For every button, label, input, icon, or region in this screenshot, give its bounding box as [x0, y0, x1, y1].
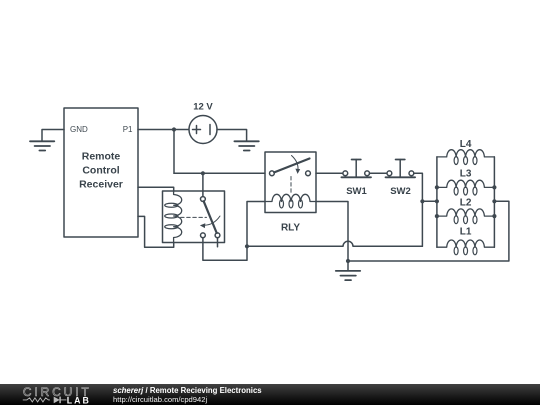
- svg-text:LAB: LAB: [67, 395, 91, 405]
- node left rail junction feed: [435, 199, 439, 203]
- relay RLY (switch + coil): [265, 152, 316, 234]
- wire switch row to relay K1: [174, 172, 265, 174]
- wire crossing with hop to SW2 drop: [247, 241, 422, 246]
- wire RLY to SW1: [316, 172, 343, 174]
- ground (right of V1): [234, 141, 258, 150]
- switch SW1 (pushbutton): [341, 160, 371, 198]
- svg-text:SW1: SW1: [346, 186, 367, 197]
- svg-text:Control: Control: [82, 165, 119, 177]
- node right rail junction L2: [492, 214, 496, 218]
- wire RLY coil right to ground: [316, 202, 348, 262]
- node junction P1/relay feed: [172, 127, 176, 131]
- svg-text:Remote: Remote: [82, 151, 121, 163]
- svg-text:SW2: SW2: [390, 186, 411, 197]
- CircuitLab logo: [0, 384, 110, 405]
- inductor L2: [437, 198, 495, 224]
- wire ground stem: [347, 261, 349, 271]
- wire SW1 to SW2: [370, 172, 388, 174]
- voltage source V1 12 V: [189, 102, 217, 144]
- svg-text:Receiver: Receiver: [79, 179, 123, 191]
- wire P1 to V1: [138, 129, 189, 131]
- svg-text:L4: L4: [460, 139, 472, 150]
- node left rail junction L2: [435, 214, 439, 218]
- node junction to relay K1 common: [201, 171, 205, 175]
- svg-text:L3: L3: [460, 168, 472, 179]
- inductor L1: [437, 227, 495, 255]
- node junction SW2 feed: [420, 199, 424, 203]
- svg-text:12 V: 12 V: [193, 102, 213, 113]
- wire right rail out to bottom return: [348, 201, 509, 261]
- wire RLY coil left to node: [247, 202, 265, 247]
- svg-text:P1: P1: [123, 125, 133, 134]
- node right rail junction L3: [492, 185, 496, 189]
- inductor L4: [437, 139, 495, 165]
- wire left rail of inductor bank: [436, 157, 438, 247]
- wire junction down to switch row: [173, 130, 175, 174]
- node junction left of RLY coil: [245, 244, 249, 248]
- wire K1 NC stub: [217, 238, 219, 247]
- svg-text:L1: L1: [460, 227, 472, 238]
- wire receiver to K1 coil bottom: [138, 216, 174, 247]
- ground (left): [30, 141, 54, 150]
- wire SW2 down to inductor feed: [414, 173, 423, 246]
- node left rail junction L3: [435, 185, 439, 189]
- svg-text:RLY: RLY: [281, 223, 300, 234]
- node right rail junction out: [492, 199, 496, 203]
- wire GND pin of receiver: [42, 130, 64, 142]
- relay K1 (coil + SPDT switch): [163, 191, 225, 243]
- ground (center): [336, 271, 360, 280]
- footer bar: [0, 384, 540, 405]
- wire down to relay K1 switch: [202, 173, 204, 196]
- wire receiver to K1 coil top: [138, 187, 174, 191]
- receiver box Remote Control Receiver: [64, 108, 138, 237]
- wire right rail of inductor bank: [493, 157, 495, 247]
- wire feed to left rail: [422, 200, 437, 202]
- inductor L3: [437, 168, 495, 195]
- wire V1 to ground: [217, 130, 247, 142]
- node ground junction: [346, 259, 350, 263]
- svg-text:L2: L2: [460, 198, 472, 209]
- svg-text:GND: GND: [70, 125, 88, 134]
- wire K1 NO contact down and right: [203, 238, 247, 261]
- switch SW2 (pushbutton): [386, 160, 416, 198]
